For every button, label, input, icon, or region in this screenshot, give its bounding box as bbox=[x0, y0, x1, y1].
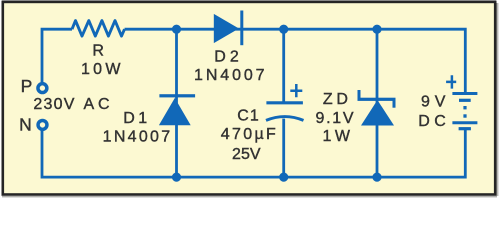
junction top D1 bbox=[172, 25, 181, 34]
junction top C1 bbox=[279, 25, 288, 34]
edge shade right bbox=[497, 3, 500, 196]
wire N drop, bottom rail, battery riser bbox=[42, 130, 465, 177]
svg-text:R: R bbox=[92, 42, 104, 59]
wire C1 branch top bbox=[282, 29, 285, 103]
zener diode ZD bbox=[358, 90, 396, 126]
terminal P bbox=[38, 84, 47, 93]
resistor R bbox=[72, 21, 125, 36]
svg-text:9.1V: 9.1V bbox=[316, 110, 354, 127]
battery cell dots bbox=[463, 106, 466, 118]
svg-text:P: P bbox=[21, 76, 33, 96]
junction bottom D1 bbox=[172, 173, 181, 182]
wire top rail and battery drop bbox=[125, 29, 466, 93]
svg-text:ZD: ZD bbox=[323, 91, 348, 108]
svg-text:230V: 230V bbox=[33, 96, 74, 113]
capacitor C1 bbox=[266, 84, 304, 120]
edge shade bottom bbox=[2, 196, 497, 198]
terminal N bbox=[38, 120, 47, 129]
junction bottom C1 bbox=[279, 173, 288, 182]
border frame bbox=[3, 2, 495, 195]
svg-text:1W: 1W bbox=[322, 128, 350, 145]
edge shade top bbox=[2, 0, 496, 2]
wire P riser and top-left rail bbox=[42, 29, 72, 82]
svg-text:470µF: 470µF bbox=[221, 126, 276, 143]
svg-text:N: N bbox=[19, 115, 32, 135]
diode D1 bbox=[159, 94, 195, 125]
junction top ZD bbox=[372, 25, 381, 34]
diode D2 bbox=[214, 11, 244, 46]
junction bottom ZD bbox=[372, 173, 381, 182]
svg-text:C1: C1 bbox=[237, 108, 259, 125]
battery B1 bbox=[446, 75, 477, 128]
wire D1 branch bbox=[175, 29, 178, 177]
wire C1 branch bottom bbox=[282, 119, 285, 178]
svg-text:10W: 10W bbox=[81, 61, 121, 78]
wire ZD branch bbox=[376, 29, 379, 177]
svg-text:25V: 25V bbox=[232, 146, 261, 163]
